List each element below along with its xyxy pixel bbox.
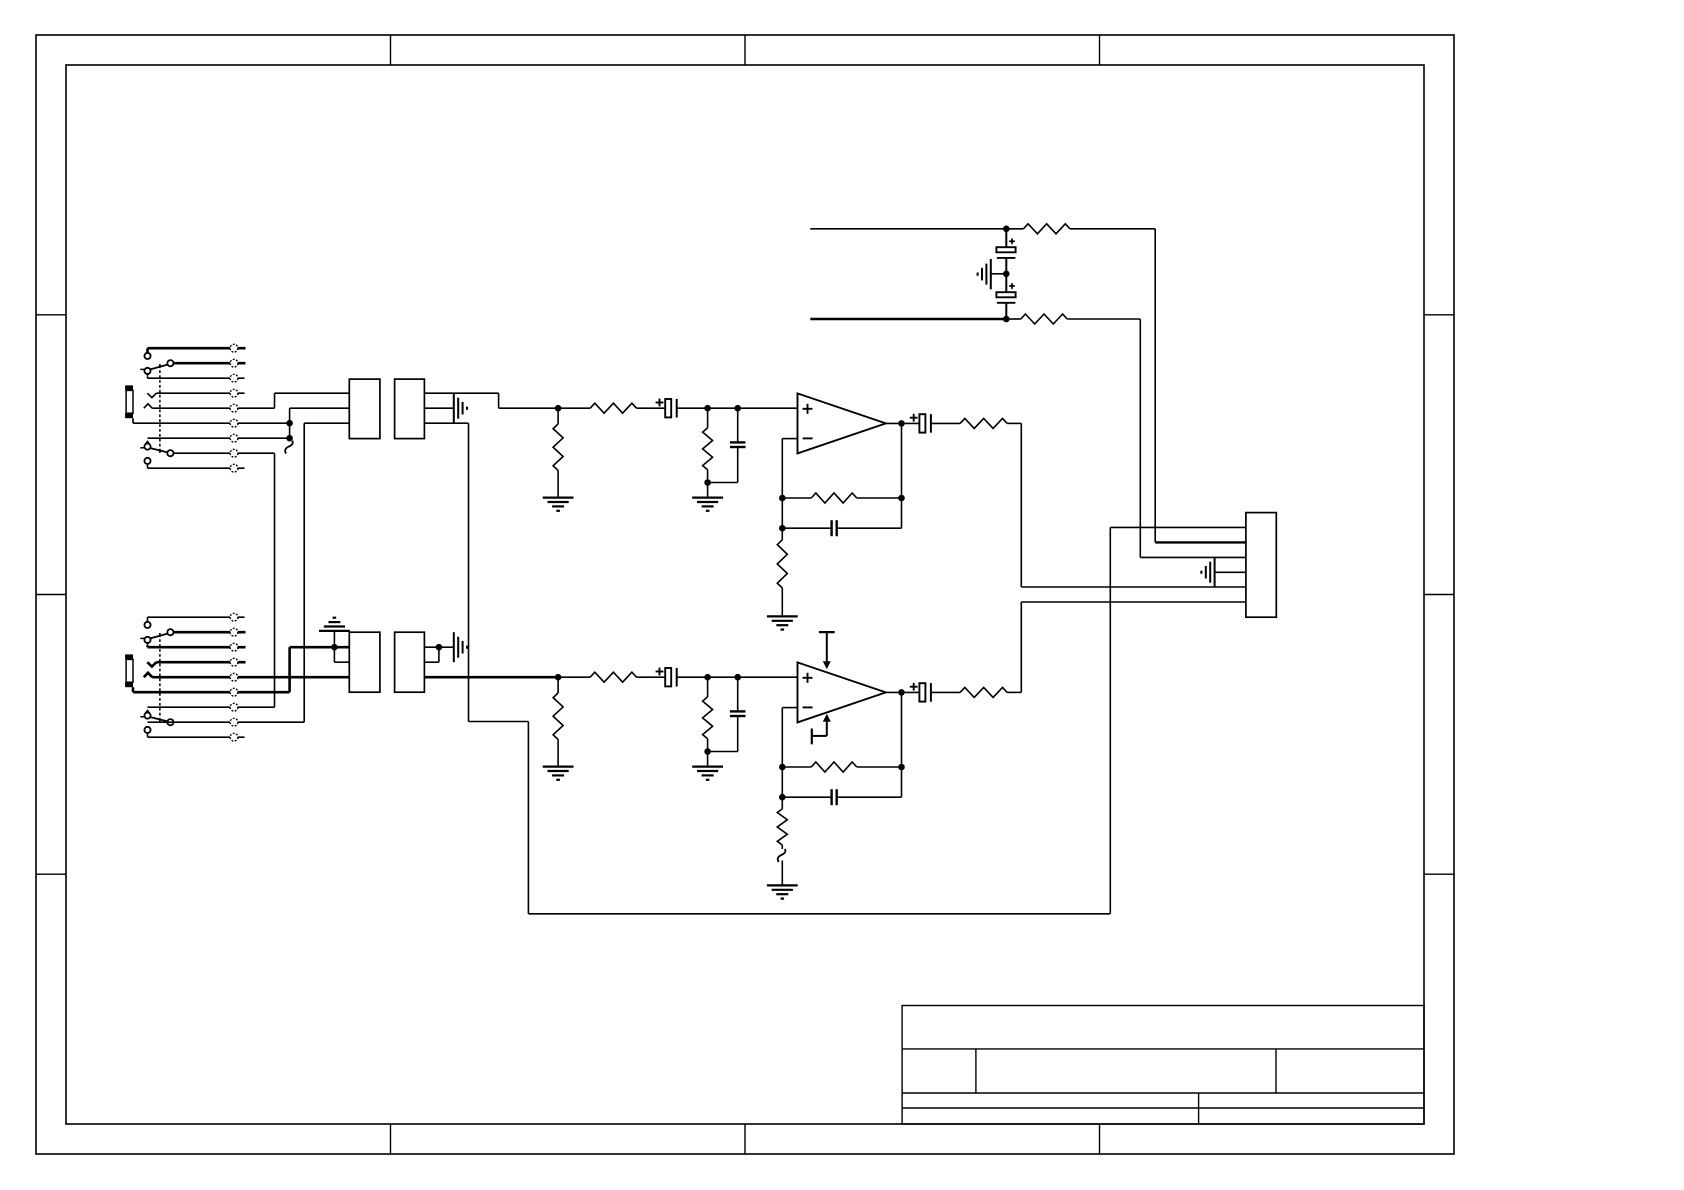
wire — [424, 646, 453, 648]
resistor R22 — [558, 672, 665, 682]
wire — [781, 439, 783, 529]
wire — [152, 676, 349, 679]
chassis ground — [978, 259, 1007, 289]
resistor R23 — [703, 677, 713, 751]
connector P1 — [349, 379, 380, 439]
connector P5 — [1246, 513, 1276, 618]
wire — [334, 661, 349, 663]
wire — [274, 453, 276, 707]
wire — [886, 422, 920, 424]
wire — [782, 707, 797, 709]
wire — [886, 691, 920, 693]
wire — [148, 706, 275, 708]
wire — [528, 913, 1110, 915]
resistor Ro U1B — [960, 687, 1021, 697]
wire — [290, 407, 350, 409]
wire — [148, 377, 245, 379]
resistor R12 — [558, 403, 665, 413]
ground — [692, 767, 723, 780]
wire — [148, 437, 290, 439]
wire — [424, 422, 468, 424]
wire — [527, 722, 529, 914]
wire — [707, 752, 709, 767]
wire — [275, 392, 350, 394]
wire — [1021, 601, 1246, 603]
resistor Rf U1A — [782, 493, 901, 503]
wire — [152, 407, 274, 409]
wire — [738, 407, 798, 409]
jack connector J1 — [125, 348, 173, 468]
capacitor C22 — [708, 677, 746, 751]
capacitor Cf U1A — [782, 520, 901, 536]
capacitor C21 (electrolytic) — [656, 668, 677, 687]
power V+ — [819, 632, 835, 669]
wire — [454, 392, 499, 394]
capacitor C11 (electrolytic) — [656, 399, 677, 418]
resistor R11 — [553, 408, 563, 497]
wire — [1140, 556, 1246, 558]
wire — [931, 422, 960, 424]
wire — [498, 393, 500, 408]
junction — [779, 495, 786, 502]
wire — [1154, 229, 1156, 543]
wire — [1020, 423, 1022, 587]
wire — [424, 392, 453, 394]
net V+ rail — [810, 228, 1006, 230]
ground — [543, 767, 574, 780]
wire — [290, 646, 350, 649]
wire — [1155, 541, 1246, 543]
wire — [424, 676, 558, 679]
wire — [468, 423, 470, 721]
resistor Rg U1B — [777, 797, 787, 849]
junction — [734, 674, 741, 681]
wire — [901, 423, 903, 528]
J1 pin pads — [230, 344, 238, 472]
ground — [692, 498, 723, 511]
wire — [469, 721, 529, 723]
wire — [148, 721, 305, 723]
wire — [304, 422, 349, 424]
wire — [133, 422, 290, 424]
junction — [898, 420, 905, 427]
wire — [781, 708, 783, 798]
junction — [898, 689, 905, 696]
wire — [148, 347, 246, 350]
shield pigtail — [285, 441, 293, 454]
power V- — [812, 714, 831, 745]
junction — [555, 405, 562, 412]
wire — [173, 362, 245, 365]
junction — [555, 674, 562, 681]
junction — [779, 794, 786, 801]
junction — [1003, 226, 1010, 233]
wire — [708, 676, 738, 678]
junction — [1003, 271, 1010, 278]
wire — [148, 736, 245, 738]
junction — [286, 420, 293, 427]
resistor R21 — [553, 677, 563, 766]
wire — [1215, 571, 1246, 573]
wire — [708, 407, 738, 409]
ground — [767, 885, 798, 898]
ground — [543, 498, 574, 511]
shield pigtail — [778, 849, 786, 862]
resistor Ro U1A — [960, 418, 1021, 428]
junction — [704, 405, 711, 412]
capacitor C8 (electrolytic) — [996, 274, 1015, 319]
wire — [303, 423, 305, 722]
connector P3 — [349, 632, 380, 692]
connector P4 — [395, 632, 425, 692]
junction — [704, 674, 711, 681]
junction — [779, 764, 786, 771]
junction — [1003, 316, 1010, 323]
wire — [173, 631, 245, 634]
wire — [781, 861, 783, 886]
wire — [1021, 586, 1246, 588]
op-amp U1B — [798, 662, 886, 722]
capacitor Co U1B (electrolytic) — [910, 683, 931, 702]
wire — [424, 661, 439, 663]
chassis ground — [454, 393, 467, 423]
wire — [677, 407, 708, 409]
jack connector J2 — [125, 617, 173, 737]
capacitor Co U1A (electrolytic) — [910, 414, 931, 433]
junction — [331, 644, 338, 651]
wire — [1110, 526, 1246, 528]
connector P2 — [395, 379, 425, 439]
wire — [133, 691, 290, 694]
wire — [156, 661, 245, 664]
capacitor C12 — [708, 408, 746, 482]
wire — [148, 646, 246, 649]
wire — [424, 407, 453, 409]
junction — [898, 495, 905, 502]
chassis ground — [1201, 557, 1214, 587]
wire — [289, 423, 291, 438]
ground (earth, flipped) — [319, 618, 350, 663]
wire — [274, 393, 276, 408]
op-amp U1A — [798, 393, 886, 453]
capacitor C7 (electrolytic) — [996, 229, 1015, 274]
junction — [779, 525, 786, 532]
wire — [677, 676, 708, 678]
resistor Rg U1A — [777, 528, 787, 616]
wire — [173, 452, 274, 454]
wire — [438, 647, 440, 662]
wire — [148, 616, 245, 618]
wire — [288, 647, 291, 692]
resistor R8 — [1006, 314, 1140, 324]
chassis ground — [454, 632, 467, 662]
wire — [1020, 602, 1022, 692]
junction — [286, 435, 293, 442]
wire — [707, 483, 709, 498]
wire — [1139, 319, 1141, 557]
resistor R7 — [1006, 224, 1155, 234]
wire — [782, 438, 797, 440]
wire — [148, 467, 245, 469]
J2 pin pads — [230, 613, 238, 741]
junction — [898, 764, 905, 771]
wire — [901, 692, 903, 797]
net V- rail — [810, 318, 1006, 321]
wire — [738, 676, 798, 678]
junction — [704, 748, 711, 755]
resistor Rf U1B — [782, 762, 901, 772]
wire — [1109, 527, 1111, 913]
ground — [767, 616, 798, 629]
junction — [436, 644, 443, 651]
wire — [499, 407, 558, 409]
resistor R13 — [703, 408, 713, 482]
junction — [704, 479, 711, 486]
capacitor Cf U1B — [782, 789, 901, 805]
junction — [734, 405, 741, 412]
wire — [931, 691, 960, 693]
wire — [289, 408, 291, 423]
wire — [156, 392, 244, 394]
